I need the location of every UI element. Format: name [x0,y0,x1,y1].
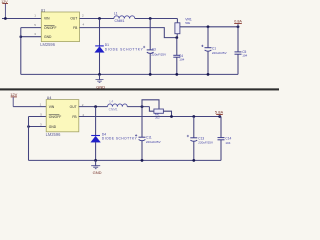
wire ON/OFF bottom [29,116,47,118]
junction at 12V port [4,17,7,20]
wire ground rail [21,73,238,75]
junction C1 tap [207,25,210,28]
wire C4 to ground rail [176,57,178,74]
svg-text:CNM1: CNM1 [115,19,125,23]
svg-text:LM2596: LM2596 [40,42,56,47]
wire C1 tap down [207,27,209,48]
capacitor C3 polarized [143,46,166,56]
wire switch node down to diode D4 [95,107,97,136]
wire VIN rail [2,18,41,20]
junction C13 tap [192,115,195,118]
resistor VR1 [175,18,192,34]
wire step down to resistor R41 [149,107,154,112]
svg-text:VIN: VIN [49,105,55,109]
wire inductor to output node bottom [127,106,149,108]
svg-text:L4: L4 [110,100,114,104]
junction diode ground bottom [94,159,97,162]
junction diode D4 tap [94,105,97,108]
svg-text:DIODE SCHOTTKY: DIODE SCHOTTKY [105,48,144,52]
svg-text:OUT: OUT [70,105,77,109]
svg-text:5.8A: 5.8A [215,109,224,114]
wire bottom ground rail [29,159,222,161]
wire VR1 top stub [176,19,178,23]
wire port column down to C14 [220,117,222,138]
wire C1 to ground rail [207,51,209,74]
wire ON/OFF to ground vertical [21,27,42,29]
capacitor C4 [173,54,184,61]
junction port 0.8A [237,25,240,28]
junction C3 ground [149,73,152,76]
op-amp U4 regulator LM2596 body (bottom) [46,96,79,137]
svg-text:OUT: OUT [70,17,77,21]
ground symbol bottom [91,160,101,174]
power port 5.8A (bottom right) [215,109,224,116]
wire FB pin to VR1 bottom [80,28,177,38]
wire inductor to output node [135,18,178,20]
svg-text:104: 104 [242,54,247,58]
capacitor C14 [218,137,232,145]
divider bar between the two schematic screenshots [0,88,279,90]
svg-text:GND: GND [44,35,52,39]
wire C11 to ground rail [141,141,143,161]
power port 12V (top left) [1,0,8,19]
wire C13 tap down [193,117,195,138]
wire C5 to ground rail corner [237,54,239,74]
capacitor C13 polarized [187,135,213,145]
pin ON/OFF name with overline [44,25,56,30]
wire C13 to ground rail [193,142,195,161]
svg-text:C3: C3 [152,48,156,52]
wire C14 to ground rail corner [220,140,222,161]
resistor R41 [154,109,164,120]
wire VR1 bottom stub [176,34,178,38]
svg-text:GND: GND [49,125,57,129]
wire switch node down to diode D1 [99,19,101,46]
wire GND pin bottom [29,126,47,128]
wire FB pin to output port bottom [79,116,221,118]
capacitor C1 polarized [201,45,226,55]
svg-text:104: 104 [179,58,184,62]
wire resistor right to FB line [163,111,171,116]
junction output node bottom [141,105,144,108]
junction C13 ground [192,159,195,162]
svg-text:220uF/25V: 220uF/25V [146,140,161,144]
junction C1 ground [207,73,210,76]
junction port 5.8A [218,115,221,118]
svg-text:220uF/25V: 220uF/25V [212,51,227,55]
wire diode to ground rail [99,52,101,74]
wire output node down to C3 [149,19,151,50]
junction C4 ground [175,73,178,76]
svg-text:GND: GND [93,170,102,175]
junction output node C3 [149,17,152,20]
wire GND pin [21,36,42,38]
ground symbol top [96,74,106,89]
power port 12V (bottom left) [10,92,17,106]
wire VIN bottom [13,106,46,108]
svg-text:L1: L1 [114,11,118,15]
svg-text:C1: C1 [212,47,216,51]
wire wiper bypass over resistor [142,100,159,109]
svg-text:U4: U4 [47,96,52,100]
svg-text:12V: 12V [10,92,17,97]
inductor L1 [114,11,135,23]
svg-text:220uF/25V: 220uF/25V [151,52,166,56]
wire port column down to C5 [237,27,239,52]
wire FB node down to C4 [176,38,178,56]
svg-text:CNM1: CNM1 [109,108,118,112]
diode D1 schottky [95,43,144,52]
svg-text:U1: U1 [41,8,45,12]
junction C11 ground [141,159,144,162]
op-amp U1 regulator LM2596 body [40,8,79,47]
junction diode D1 tap [98,17,101,20]
svg-text:ON/OFF: ON/OFF [49,115,61,119]
svg-text:ON/OFF: ON/OFF [44,26,56,30]
pin ON/OFF name bottom with overline [49,114,61,119]
junction FB node [175,36,178,39]
power port 0.8A (top right) [234,20,242,27]
junction GND pin to vertical [20,35,23,38]
svg-text:GND: GND [96,84,105,89]
svg-text:VIN: VIN [44,17,50,21]
wire VR1 wiper to output port [180,26,238,28]
svg-text:LM2596: LM2596 [46,132,62,137]
svg-text:DIODE SCHOTTKY: DIODE SCHOTTKY [102,137,138,141]
inductor L4 [108,100,128,112]
svg-text:104: 104 [225,141,230,145]
svg-text:220uF/25V: 220uF/25V [198,140,213,144]
wire OUT pin to inductor [80,18,114,20]
capacitor C11 polarized [135,134,161,144]
junction resistor to FB [170,115,173,118]
wire output node down to C11 [141,107,143,138]
junction diode ground [98,73,101,76]
wire vertical to ground rail [20,28,22,75]
wire OUT pin to inductor bottom [79,106,108,108]
diode D4 schottky [91,132,138,142]
capacitor C5 [235,50,248,58]
wire C3 to ground rail [149,54,151,75]
wire diode to ground rail bottom [95,142,97,160]
junction GND pin bottom [27,125,30,128]
wire vertical to bottom ground rail [28,117,30,161]
svg-text:50k: 50k [185,21,190,25]
svg-text:D1: D1 [105,43,109,47]
